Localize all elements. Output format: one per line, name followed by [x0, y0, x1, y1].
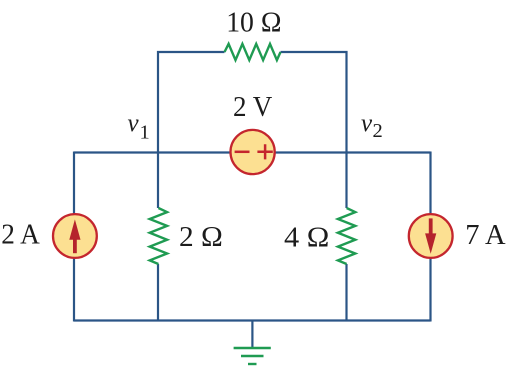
- svg-text:2 A: 2 A: [1, 218, 40, 250]
- resistor 2 ohm (vertical zigzag on v1 branch): [150, 208, 167, 264]
- wire: v1 branch vertical below 2-ohm resistor: [157, 264, 159, 322]
- svg-text:v: v: [128, 110, 140, 137]
- wire: ground stub from bottom rail: [251, 321, 253, 349]
- current source 2A (left rail, arrow up): [53, 214, 97, 258]
- wire: v2 branch vertical below 4-ohm resistor: [345, 264, 347, 322]
- wire: bottom rail: [74, 319, 431, 321]
- wire: right rail vertical (7A branch): [429, 152, 431, 322]
- resistor 10 ohm (horizontal zigzag on top wire): [225, 44, 281, 60]
- resistor 4 ohm (vertical zigzag on v2 branch): [338, 208, 355, 264]
- svg-text:2 V: 2 V: [233, 91, 272, 123]
- svg-text:4 Ω: 4 Ω: [284, 221, 329, 253]
- svg-text:7 A: 7 A: [465, 219, 505, 251]
- svg-text:2: 2: [373, 120, 383, 142]
- node v2 label: [361, 110, 383, 142]
- node v1 label: [128, 110, 150, 144]
- wire: main horizontal node line from left rail through v1, source, v2 to right rail: [74, 151, 431, 153]
- svg-text:v: v: [361, 110, 373, 137]
- current source 7A (right rail, arrow down): [409, 214, 453, 258]
- wire: top loop right segment (10-ohm resistor across and down to node v2): [281, 52, 347, 154]
- svg-text:1: 1: [140, 122, 150, 144]
- svg-text:10 Ω: 10 Ω: [226, 7, 281, 39]
- wire: v1 branch vertical above 2-ohm resistor: [157, 153, 159, 209]
- wire: v2 branch vertical above 4-ohm resistor: [345, 153, 347, 209]
- svg-text:2 Ω: 2 Ω: [179, 221, 223, 253]
- wire: left rail vertical (2A branch): [73, 152, 75, 322]
- voltage source 2V (circle with - + on node line): [231, 130, 275, 174]
- wire: top loop left segment (node v1 up and across to 10-ohm resistor): [158, 52, 225, 154]
- ground symbol: [234, 348, 271, 364]
